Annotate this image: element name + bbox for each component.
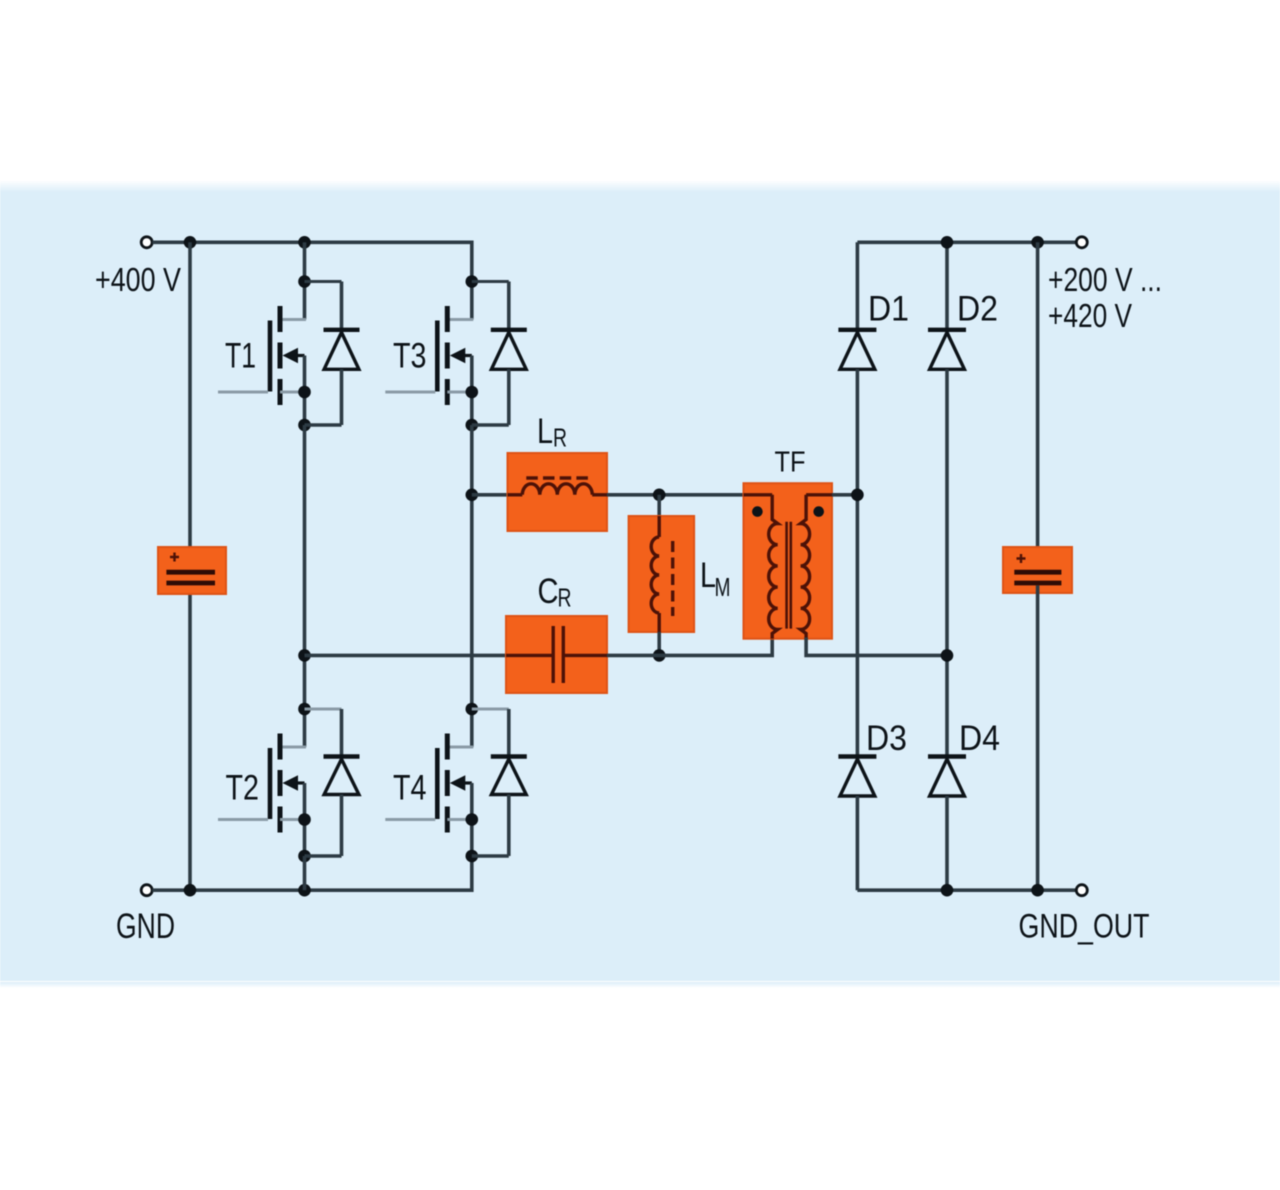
body diode of T2 bbox=[305, 709, 360, 856]
svg-text:R: R bbox=[553, 423, 567, 453]
wire D2/D4 branch upper bbox=[945, 242, 949, 331]
svg-text:GND: GND bbox=[116, 907, 175, 946]
svg-text:M: M bbox=[715, 572, 731, 602]
node output cap / bottom rail bbox=[1031, 884, 1044, 897]
svg-text:+420 V: +420 V bbox=[1048, 297, 1132, 334]
wire output cap branch lower bbox=[1036, 586, 1040, 891]
wire resonant node down to L_M bbox=[657, 495, 661, 516]
svg-text:R: R bbox=[558, 583, 572, 613]
capacitor C_in (input bulk, orange) bbox=[158, 547, 226, 594]
diode D1 bbox=[838, 330, 876, 370]
node D4 / bottom rail bbox=[941, 884, 954, 897]
capacitor C_R (resonant, orange box) bbox=[506, 616, 607, 693]
wire output cap branch upper bbox=[1036, 242, 1040, 570]
wire D2 to node B to D4 bbox=[945, 369, 949, 758]
wire mid rail (bridge mid to C_R) bbox=[305, 654, 507, 658]
wire bottom rail left bbox=[152, 856, 472, 890]
inductor L_R (resonant, orange box) bbox=[508, 453, 608, 531]
wire TF secondary bottom to rectifier node B bbox=[806, 638, 947, 656]
terminal GND (input) bbox=[141, 885, 152, 896]
wire top rail right bbox=[857, 241, 1076, 245]
body diode of T4 bbox=[472, 709, 527, 856]
svg-text:T3: T3 bbox=[393, 337, 427, 376]
wire D3 branch lower bbox=[856, 796, 860, 890]
wire T1 leg (drain stub from top rail) bbox=[303, 242, 307, 281]
transistor T4 (MOSFET) bbox=[385, 703, 478, 863]
wire resonant node to L_R bbox=[472, 493, 508, 497]
label C_R bbox=[538, 572, 572, 613]
svg-text:+200 V ...: +200 V ... bbox=[1048, 261, 1162, 298]
wire TF secondary top to rectifier node A bbox=[832, 493, 857, 497]
body diode of T3 bbox=[472, 282, 527, 426]
node L_M / mid rail bbox=[653, 649, 666, 662]
svg-text:C: C bbox=[538, 572, 559, 611]
svg-text:T1: T1 bbox=[225, 337, 256, 376]
wire L_M to mid rail bbox=[657, 632, 661, 655]
transistor T2 (MOSFET) bbox=[218, 703, 311, 863]
wire L_R to TF primary bbox=[607, 493, 744, 497]
node resonant (T3/T4 midpoint) bbox=[466, 489, 479, 502]
node D2 / top rail bbox=[941, 236, 954, 249]
node output cap / top rail bbox=[1031, 236, 1044, 249]
transistor T1 (MOSFET) bbox=[218, 275, 311, 431]
label L_M bbox=[700, 556, 731, 602]
svg-text:GND_OUT: GND_OUT bbox=[1019, 908, 1150, 946]
wire T3 source to resonant node to T4 drain bbox=[470, 425, 474, 709]
svg-text:+400 V: +400 V bbox=[95, 261, 181, 298]
label L_R bbox=[537, 412, 567, 453]
node input cap / top rail bbox=[184, 236, 197, 249]
diode D3 bbox=[838, 757, 876, 797]
wire D1 to node A to D3 bbox=[856, 369, 860, 758]
node L_M / resonant line bbox=[653, 489, 666, 502]
node T1 drain / top rail bbox=[298, 236, 311, 249]
node B (secondary bottom / D2 / D4) bbox=[941, 649, 954, 662]
capacitor C_out (output bulk, orange) bbox=[1003, 547, 1072, 593]
svg-text:T4: T4 bbox=[393, 769, 427, 808]
wire D4 branch lower bbox=[945, 796, 949, 890]
wire input cap branch lower bbox=[188, 586, 192, 891]
transformer TF (orange box) bbox=[744, 483, 833, 639]
node T2 source / bottom rail bbox=[298, 884, 311, 897]
wire C_R to TF primary bottom bbox=[607, 638, 772, 656]
svg-text:D2: D2 bbox=[957, 290, 998, 329]
inductor L_M (magnetizing, orange box) bbox=[629, 516, 695, 632]
body diode of T1 bbox=[305, 282, 360, 426]
wire T1 source to mid rail to T2 drain bbox=[303, 425, 307, 709]
wire input cap branch upper bbox=[188, 242, 192, 570]
terminal +400 V (input) bbox=[141, 237, 152, 248]
node bridge mid / C_R rail bbox=[298, 649, 311, 662]
transistor T3 (MOSFET) bbox=[385, 275, 478, 431]
svg-text:T2: T2 bbox=[226, 769, 260, 808]
node input cap / bottom rail bbox=[184, 884, 197, 897]
svg-text:TF: TF bbox=[775, 446, 806, 478]
wire T2 source to bottom rail bbox=[303, 856, 307, 890]
wire D1/D3 branch upper bbox=[856, 242, 860, 331]
svg-text:D1: D1 bbox=[868, 290, 909, 329]
svg-text:L: L bbox=[537, 412, 553, 451]
wire bottom rail right bbox=[857, 888, 1076, 892]
diode D4 bbox=[928, 757, 966, 797]
wire top rail left bbox=[152, 242, 472, 281]
terminal GND_OUT (output) bbox=[1076, 885, 1087, 896]
svg-text:D3: D3 bbox=[866, 719, 907, 758]
svg-text:D4: D4 bbox=[959, 719, 1000, 758]
terminal +200..420 V (output) bbox=[1076, 237, 1087, 248]
node A (secondary top / D1 / D3) bbox=[851, 489, 864, 502]
diode D2 bbox=[928, 330, 966, 370]
